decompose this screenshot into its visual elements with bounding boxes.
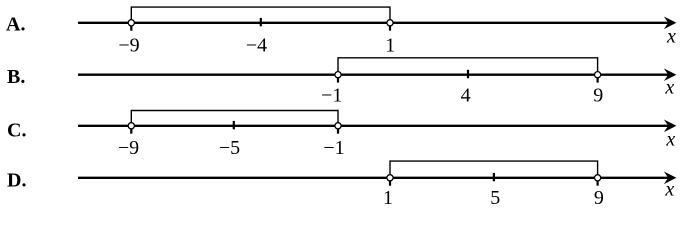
svg-text:−5: −5 xyxy=(219,137,240,159)
number line C arrowhead xyxy=(664,120,677,133)
interval bracket B xyxy=(338,58,598,75)
open circle D left endpoint xyxy=(387,175,393,181)
number line B axis xyxy=(78,74,669,76)
number line B arrowhead xyxy=(664,68,677,81)
interval bracket C xyxy=(131,111,338,126)
open circle D right endpoint xyxy=(595,175,601,181)
svg-text:9: 9 xyxy=(594,187,604,209)
interval bracket D xyxy=(390,161,598,178)
tick A below right circle xyxy=(389,26,391,31)
svg-text:C.: C. xyxy=(7,119,26,141)
tick D below right circle xyxy=(596,181,598,186)
number line A arrowhead xyxy=(664,17,677,30)
svg-text:1: 1 xyxy=(385,35,395,57)
svg-text:−1: −1 xyxy=(321,84,342,106)
svg-text:A.: A. xyxy=(6,14,25,36)
tick C midpoint xyxy=(233,121,235,129)
open circle C right endpoint xyxy=(335,123,341,129)
open circle A left endpoint xyxy=(128,20,134,26)
open circle B right endpoint xyxy=(595,72,601,78)
svg-text:9: 9 xyxy=(593,84,603,106)
tick A below left circle xyxy=(130,26,132,31)
svg-text:x: x xyxy=(665,129,675,151)
number line D axis xyxy=(78,177,669,179)
svg-text:B.: B. xyxy=(7,66,25,88)
open circle A right endpoint xyxy=(387,20,393,26)
svg-text:5: 5 xyxy=(490,187,500,209)
tick D midpoint xyxy=(493,173,495,181)
svg-text:−9: −9 xyxy=(118,35,139,57)
svg-text:x: x xyxy=(666,26,676,48)
svg-text:D.: D. xyxy=(7,169,26,191)
svg-text:−9: −9 xyxy=(118,137,139,159)
tick D below left circle xyxy=(389,181,391,186)
open circle C left endpoint xyxy=(128,123,134,129)
svg-text:x: x xyxy=(664,179,674,201)
tick B midpoint xyxy=(467,70,469,78)
tick C below left circle xyxy=(130,129,132,134)
tick B below left circle xyxy=(337,78,339,83)
open circle B left endpoint xyxy=(335,72,341,78)
number line A axis xyxy=(78,22,669,24)
svg-text:x: x xyxy=(664,77,674,99)
tick A midpoint xyxy=(260,18,262,26)
svg-text:1: 1 xyxy=(383,187,393,209)
svg-text:−4: −4 xyxy=(246,35,267,57)
number line D arrowhead xyxy=(664,172,677,185)
tick B below right circle xyxy=(596,78,598,83)
svg-text:−1: −1 xyxy=(323,137,344,159)
tick C below right circle xyxy=(337,129,339,134)
svg-text:4: 4 xyxy=(461,84,471,106)
number line C axis xyxy=(78,125,669,127)
interval bracket A xyxy=(131,7,390,23)
